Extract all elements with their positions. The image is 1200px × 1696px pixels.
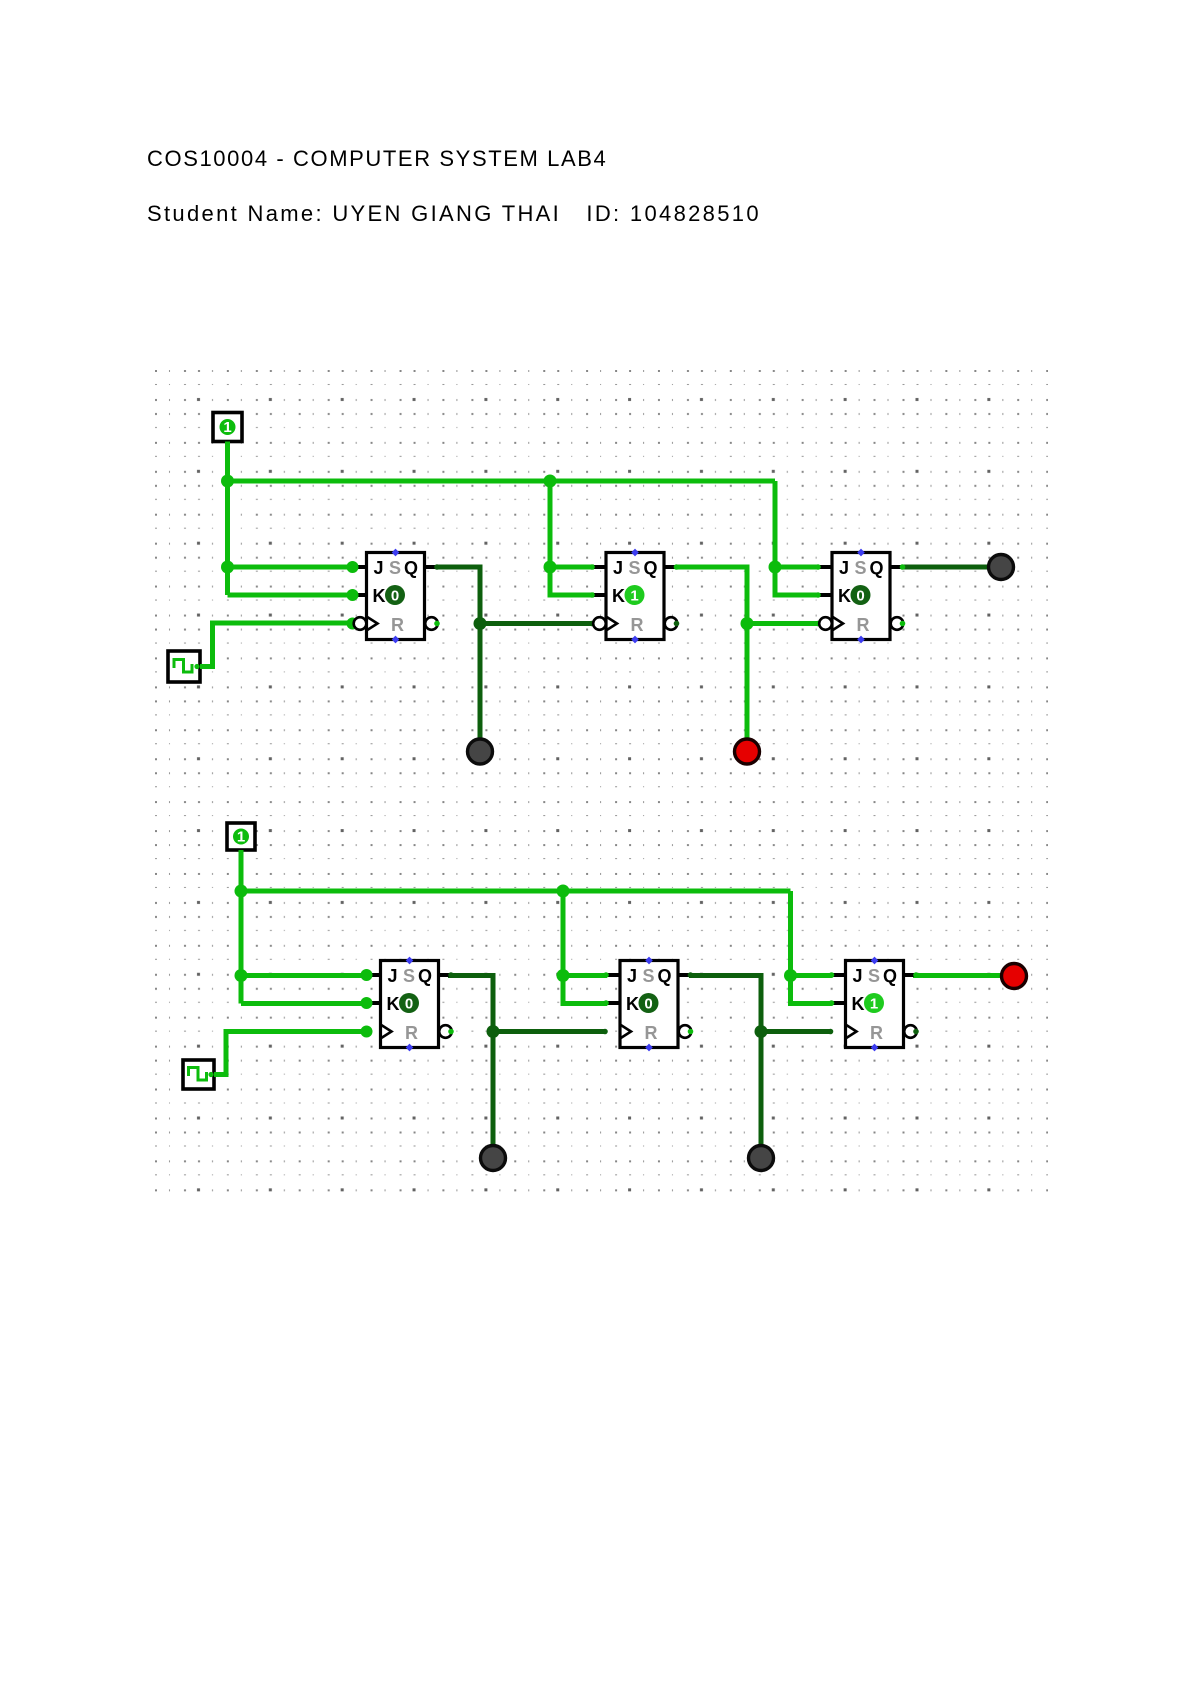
document title (147, 146, 607, 172)
U6 pin Q stub (904, 973, 917, 977)
FF3 clock pin end dot (815, 621, 821, 627)
constant 1 source V2 (227, 823, 255, 850)
U6 inverted output bubble (904, 1025, 917, 1038)
U1 async R pin (unconnected) (392, 636, 400, 644)
wire: top power bus horizontal (228, 479, 776, 484)
LED output LED3 (gray) (989, 555, 1014, 580)
U5 pin J connection dot (603, 972, 609, 978)
U1 clock pin connection dot (347, 618, 359, 630)
junction: FF6 J row (784, 969, 797, 982)
junction: FF2 J row (544, 561, 557, 574)
wire: FF3 Q to LED3 (net Q2=0) (901, 565, 988, 570)
U4 pin Q connection dot (448, 972, 454, 978)
JK flip-flop U6 (829, 957, 919, 1052)
U2 async S pin (unconnected) (631, 549, 639, 557)
U3 clock negation bubble (819, 617, 832, 630)
JK flip-flop U5 (603, 957, 693, 1052)
wire: clock to FF4 (214, 1032, 366, 1075)
U1 body (367, 553, 425, 640)
U3 pin Q stub (890, 565, 903, 569)
svg-text:1: 1 (870, 996, 878, 1013)
U5 body (620, 961, 678, 1048)
U1 state value 0 (385, 585, 405, 605)
junction: bottom bus at V2 column (235, 885, 248, 898)
U5 pin Q connection dot (688, 972, 694, 978)
svg-text:S: S (629, 558, 641, 578)
U1 pin Q stub (425, 565, 438, 569)
U4 inverted output bubble (439, 1025, 452, 1038)
U6 pin K connection dot (829, 1000, 835, 1006)
JK flip-flop U4 (361, 957, 454, 1052)
U4 body (381, 961, 439, 1048)
svg-text:0: 0 (391, 588, 399, 605)
constant 1 source V1 (213, 413, 242, 442)
U2 pin J connection dot (589, 564, 595, 570)
FF5 clock pin end dot (602, 1029, 608, 1035)
U3 state value 0 (851, 585, 871, 605)
U2 inverted output bubble (665, 617, 678, 630)
wire: FF2 Q to LED2 and FF3 clock (net Q1=1) (676, 567, 747, 739)
U3 pin K stub (820, 593, 833, 597)
wire: FF2 J feed (550, 565, 594, 570)
wire: FF5 clock feed (493, 1029, 605, 1034)
U1 inverted output bubble (425, 617, 438, 630)
U6 clock input triangle (846, 1025, 857, 1039)
wire: drop to FF3 inputs (775, 481, 819, 595)
U4 clock pin connection dot (361, 1026, 373, 1038)
wire: FF3 J feed (775, 565, 819, 570)
U2 pin Q stub (664, 565, 677, 569)
svg-text:S: S (643, 966, 655, 986)
U6 pin K stub (833, 1001, 846, 1005)
junction: FF5 Q net (755, 1025, 768, 1038)
U2 inverted output pin dot (674, 621, 680, 627)
svg-text:0: 0 (856, 588, 864, 605)
wire: FF2 clock feed (480, 621, 592, 626)
U6 inverted output pin dot (913, 1029, 919, 1035)
junction: FF4 Q net (487, 1025, 500, 1038)
FF2 clock pin end dot (589, 621, 595, 627)
junction: FF5 J row (557, 969, 570, 982)
U1 async S pin (unconnected) (392, 549, 400, 557)
junction: J row at V1 column (221, 561, 234, 574)
FF6 clock pin end dot (828, 1029, 834, 1035)
U4 inverted output pin dot (448, 1029, 454, 1035)
U6 pin J connection dot (829, 972, 835, 978)
U1 inverted output pin dot (434, 621, 440, 627)
svg-text:K: K (387, 994, 400, 1014)
U5 pin Q stub (678, 973, 691, 977)
U5 pin K stub (608, 1001, 621, 1005)
wire: FF3 clock feed (747, 621, 818, 626)
svg-text:K: K (373, 586, 386, 606)
svg-text:J: J (374, 558, 384, 578)
U1 pin J connection dot (347, 561, 359, 573)
U3 pin J connection dot (815, 564, 821, 570)
wire: V1 output vertical to K row (225, 442, 230, 596)
LED output LED5 (gray) (749, 1146, 774, 1171)
U2 state value 1 (625, 585, 645, 605)
svg-text:R: R (870, 1023, 883, 1043)
U3 inverted output pin dot (900, 621, 906, 627)
U1 pin K connection dot (347, 589, 359, 601)
U6 body (846, 961, 904, 1048)
U5 async S pin (unconnected) (645, 957, 653, 965)
LED output LED6 (red) (1002, 964, 1027, 989)
svg-text:J: J (613, 558, 623, 578)
wire: FF1 J feed (228, 565, 353, 570)
LED output LED4 (gray) (481, 1146, 506, 1171)
U2 pin K stub (594, 593, 607, 597)
U4 pin Q stub (439, 973, 452, 977)
U4 async R pin (unconnected) (406, 1044, 414, 1052)
U6 async R pin (unconnected) (871, 1044, 879, 1052)
svg-text:K: K (612, 586, 625, 606)
svg-text:K: K (626, 994, 639, 1014)
wire: drop to FF5 inputs (563, 891, 607, 1004)
clock source CLK1 (168, 651, 200, 682)
svg-text:1: 1 (237, 829, 245, 846)
wire: FF6 clock feed (761, 1029, 831, 1034)
student name line (147, 201, 761, 227)
svg-text:K: K (852, 994, 865, 1014)
U5 state value 0 (639, 993, 659, 1013)
U1 pin K stub (354, 593, 367, 597)
svg-text:K: K (838, 586, 851, 606)
U5 async R pin (unconnected) (645, 1044, 653, 1052)
junction: FF3 J row (769, 561, 782, 574)
svg-text:S: S (868, 966, 880, 986)
svg-text:S: S (855, 558, 867, 578)
U2 body (606, 553, 664, 640)
U4 pin K connection dot (361, 997, 373, 1009)
svg-text:R: R (631, 615, 644, 635)
junction: bus at V1 column (221, 475, 234, 488)
wire: drop to FF2 inputs (550, 481, 594, 595)
junction: bus to FF2 drop (544, 475, 557, 488)
U4 pin J stub (368, 973, 381, 977)
junction: FF4 J row (235, 969, 248, 982)
svg-text:0: 0 (405, 996, 413, 1013)
wire: V2 output vertical to K row (239, 850, 244, 1004)
JK flip-flop U3 (815, 549, 905, 644)
svg-text:1: 1 (223, 419, 231, 436)
U2 pin K connection dot (589, 592, 595, 598)
svg-text:R: R (391, 615, 404, 635)
svg-text:S: S (389, 558, 401, 578)
U3 clock input triangle (832, 617, 843, 631)
U1 pin J stub (354, 565, 367, 569)
svg-text:J: J (853, 966, 863, 986)
wire: FF5 J feed (563, 973, 607, 978)
U2 clock negation bubble (593, 617, 606, 630)
U3 pin Q connection dot (900, 564, 906, 570)
U5 inverted output bubble (679, 1025, 692, 1038)
U3 async S pin (unconnected) (857, 549, 865, 557)
clock source CLK2 (183, 1060, 214, 1089)
LED output LED1 (gray) (468, 739, 493, 764)
wire: drop to FF6 inputs (791, 891, 833, 1004)
svg-text:Q: Q (404, 558, 418, 578)
svg-text:Q: Q (870, 558, 884, 578)
junction: FF1 Q net (474, 617, 487, 630)
U6 async S pin (unconnected) (871, 957, 879, 965)
U2 pin J stub (594, 565, 607, 569)
junction: bottom bus to FF5 drop (557, 885, 570, 898)
U1 clock input triangle (367, 617, 378, 631)
U5 clock input triangle (620, 1025, 631, 1039)
U5 pin K connection dot (603, 1000, 609, 1006)
U4 async S pin (unconnected) (406, 957, 414, 965)
svg-text:Q: Q (658, 966, 672, 986)
wire: bottom power bus horizontal (241, 889, 791, 894)
svg-text:0: 0 (644, 996, 652, 1013)
U2 pin Q connection dot (674, 564, 680, 570)
wire: FF6 J feed (791, 973, 833, 978)
U6 state value 1 (864, 993, 884, 1013)
svg-text:R: R (645, 1023, 658, 1043)
U5 pin J stub (608, 973, 621, 977)
wire: FF4 Q to LED4 and FF5 clock (net 0) (448, 976, 493, 1146)
svg-text:J: J (388, 966, 398, 986)
U4 pin J connection dot (361, 969, 373, 981)
U3 pin K connection dot (815, 592, 821, 598)
wire: clock to FF1 (200, 623, 352, 667)
U2 clock input triangle (606, 617, 617, 631)
JK flip-flop U1 (347, 549, 440, 644)
JK flip-flop U2 (589, 549, 679, 644)
svg-text:R: R (857, 615, 870, 635)
svg-text:1: 1 (630, 588, 638, 605)
U4 clock input triangle (381, 1025, 392, 1039)
svg-text:J: J (839, 558, 849, 578)
wire: FF4 J feed (241, 973, 366, 978)
wire: FF1 Q to LED and FF2 clock (net Q0=0) (437, 567, 480, 739)
U3 async R pin (unconnected) (857, 636, 865, 644)
wire: FF6 Q to LED6 (net 1) (913, 973, 1001, 978)
svg-text:R: R (405, 1023, 418, 1043)
U1 clock negation bubble (354, 617, 367, 630)
U3 pin J stub (820, 565, 833, 569)
LED output LED2 (red) (735, 739, 760, 764)
svg-text:Q: Q (644, 558, 658, 578)
U6 pin J stub (833, 973, 846, 977)
U1 pin Q connection dot (434, 564, 440, 570)
svg-text:Q: Q (418, 966, 432, 986)
U3 body (832, 553, 890, 640)
junction: FF2 Q net (741, 617, 754, 630)
svg-text:J: J (627, 966, 637, 986)
U6 pin Q connection dot (913, 972, 919, 978)
U3 inverted output bubble (891, 617, 904, 630)
U2 async R pin (unconnected) (631, 636, 639, 644)
U4 state value 0 (399, 993, 419, 1013)
U4 pin K stub (368, 1001, 381, 1005)
wire: FF5 Q to LED5 and FF6 clock (net 0) (689, 976, 761, 1146)
wire: FF1 K feed (228, 593, 353, 598)
U5 inverted output pin dot (688, 1029, 694, 1035)
wire: FF4 K feed (241, 1001, 366, 1006)
svg-text:S: S (403, 966, 415, 986)
svg-text:Q: Q (883, 966, 897, 986)
